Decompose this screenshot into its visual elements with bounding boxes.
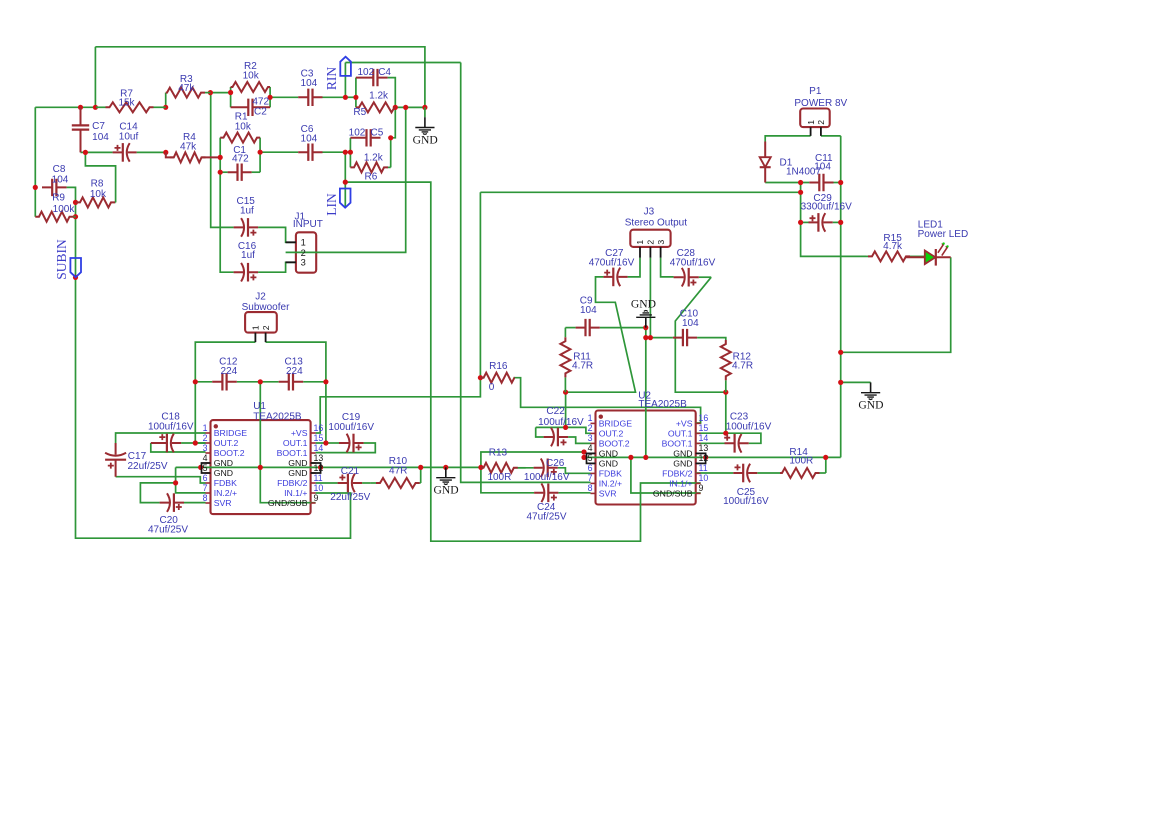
wire C3 to RIN node [323, 96, 346, 98]
svg-text:22uf/25V: 22uf/25V [128, 461, 168, 472]
svg-text:0: 0 [489, 382, 495, 393]
node LED gnd [838, 350, 843, 355]
node U1 pin15 [323, 440, 328, 445]
op-amp U1 pin 6 stub [206, 482, 211, 484]
svg-text:14: 14 [699, 433, 709, 443]
resistor R8 [114, 201, 117, 203]
wire R16 to U2 +VS [515, 378, 701, 423]
capacitor C14 [113, 151, 137, 153]
svg-text:10: 10 [314, 483, 324, 493]
wire C25 left [696, 472, 734, 474]
svg-text:R8: R8 [91, 179, 104, 190]
svg-text:4: 4 [203, 453, 208, 463]
node C10 row [643, 335, 648, 340]
node D1 C11 [798, 180, 803, 185]
svg-text:6: 6 [203, 473, 208, 483]
op-amp U2 pin 13 stub [696, 452, 701, 454]
node R5 right [393, 105, 398, 110]
svg-text:J2: J2 [255, 292, 266, 303]
resistor R1 [220, 133, 260, 143]
wire C5R6 bracket left [349, 138, 351, 168]
capacitor C12 [212, 381, 237, 383]
svg-text:Subwoofer: Subwoofer [242, 302, 290, 313]
wire J2 pin1 down [195, 342, 255, 443]
node C12 C13 mid [258, 379, 263, 384]
wire RIN riser [344, 63, 346, 98]
svg-text:GND: GND [214, 468, 233, 478]
node C1 exit [258, 150, 263, 155]
svg-text:13: 13 [699, 443, 709, 453]
op-amp U2 pin 14 stub [696, 442, 701, 444]
wire power rail [480, 191, 800, 193]
resistor R16 [480, 373, 514, 383]
svg-text:15: 15 [699, 423, 709, 433]
svg-text:Stereo Output: Stereo Output [625, 217, 687, 228]
svg-text:+VS: +VS [291, 428, 308, 438]
op-amp U2 GND bracket left [587, 453, 596, 463]
resistor R3 [205, 92, 210, 94]
svg-text:FDBK/2: FDBK/2 [277, 478, 308, 488]
wire C11 right [834, 182, 841, 184]
op-amp U2 pin 9 stub [696, 492, 701, 494]
svg-text:16: 16 [699, 413, 709, 423]
wire RIN top rail [345, 62, 460, 64]
svg-text:47R: 47R [389, 465, 407, 476]
svg-text:6: 6 [588, 463, 593, 473]
node C1 row left [218, 170, 223, 175]
op-amp U2 TEA2025B body [596, 411, 696, 505]
capacitor C5 [350, 137, 380, 139]
wire C18 right [181, 442, 205, 444]
capacitor C25 [733, 472, 757, 474]
wire SUBIN to U1 input [76, 277, 351, 538]
wire C17 top to pin1 [116, 433, 206, 443]
svg-text:47k: 47k [178, 83, 195, 94]
wire C29 right [833, 221, 841, 223]
resistor R5 [356, 102, 395, 112]
svg-text:SUBIN: SUBIN [54, 239, 69, 280]
capacitor C15 [234, 226, 259, 228]
svg-text:GND: GND [214, 458, 233, 468]
svg-text:100uf/16V: 100uf/16V [726, 421, 772, 432]
ground GND right [870, 382, 872, 392]
op-amp U1 GND bracket left [202, 463, 211, 473]
wire LIN stub [344, 182, 346, 206]
wire GND right rail [840, 136, 842, 458]
wire R1C1 bracket left [220, 138, 233, 273]
connector J3 pins [640, 247, 661, 258]
wire R5 out row GND [395, 106, 425, 108]
wire power tee [800, 183, 802, 223]
op-amp U1 pin 13 stub [311, 462, 316, 464]
svg-text:FDBK/2: FDBK/2 [662, 468, 693, 478]
svg-text:1.2k: 1.2k [369, 91, 389, 102]
svg-text:3: 3 [588, 433, 593, 443]
op-amp U2 pin 6 stub [591, 472, 596, 474]
op-amp U1 pin 1 stub [206, 432, 211, 434]
capacitor C7 [80, 107, 82, 152]
wire GND sym branch [841, 381, 871, 383]
wire C19 loop to pin14 [316, 443, 376, 453]
svg-text:22uf/25V: 22uf/25V [330, 492, 370, 503]
wire R13 to C26 [514, 467, 534, 469]
wire C14 to R3R4 node [137, 151, 166, 153]
svg-text:GND: GND [288, 458, 307, 468]
svg-text:9: 9 [699, 483, 704, 493]
svg-text:SVR: SVR [214, 498, 232, 508]
op-amp U2 pin 5 stub [591, 462, 596, 464]
svg-text:8: 8 [588, 483, 593, 493]
capacitor C3 [298, 96, 322, 98]
op-amp U1 pin 12 stub [311, 472, 316, 474]
op-amp U1 pin1 mark [214, 424, 218, 428]
svg-text:9: 9 [314, 493, 319, 503]
svg-text:2: 2 [261, 325, 271, 330]
svg-text:11: 11 [314, 473, 323, 483]
node R12 bottom [723, 390, 728, 395]
svg-text:7: 7 [588, 473, 593, 483]
op-amp U2 pin 12 stub [696, 462, 701, 464]
wire GND stub near R5 [424, 107, 426, 117]
wire C8 right corner [67, 187, 76, 277]
svg-text:TEA2025B: TEA2025B [638, 399, 687, 410]
wire C4 right drop [388, 78, 396, 138]
wire P1 pin2 [821, 135, 841, 137]
node C14 right [163, 150, 168, 155]
wire R11 top corner [565, 327, 575, 329]
wire C16 to J1 pin3 [258, 262, 296, 272]
node LIN anchor [343, 180, 348, 185]
wire OUT2 column U2 [565, 392, 567, 427]
op-amp U1 pin 5 stub [206, 472, 211, 474]
label SUBIN [70, 258, 81, 277]
svg-text:P1: P1 [809, 86, 822, 97]
wire C26 to FDBK U2 [558, 468, 591, 474]
svg-text:LIN: LIN [324, 193, 339, 216]
svg-text:1.2k: 1.2k [364, 153, 384, 164]
svg-text:IN.1/+: IN.1/+ [284, 488, 307, 498]
capacitor C19 [339, 442, 364, 444]
svg-text:R9: R9 [52, 192, 65, 203]
svg-text:3: 3 [301, 258, 306, 268]
op-amp U1 GND bracket right [311, 463, 321, 473]
op-amp U2 pin 1 stub [591, 422, 596, 424]
svg-text:2: 2 [301, 248, 306, 258]
svg-text:224: 224 [221, 366, 238, 377]
op-amp U1 pin 10 stub [311, 492, 316, 494]
svg-text:10uf: 10uf [119, 131, 139, 142]
wire R13 box [481, 452, 587, 493]
svg-text:R6: R6 [365, 171, 378, 182]
op-amp U2 pin 10 stub [696, 482, 701, 484]
resistor R7 [96, 106, 106, 108]
node SUBIN anchor [73, 275, 78, 280]
capacitor C2 [231, 106, 271, 108]
svg-text:3300uf/16V: 3300uf/16V [801, 201, 852, 212]
svg-text:C8: C8 [53, 164, 66, 175]
svg-text:C4: C4 [378, 67, 391, 78]
svg-text:TEA2025B: TEA2025B [253, 411, 302, 422]
wire C21 to R10 [362, 482, 370, 484]
svg-text:11: 11 [699, 463, 708, 473]
ground GND under U1 row [445, 467, 447, 477]
wire C9 to GND col [600, 327, 646, 329]
svg-text:FDBK: FDBK [214, 478, 237, 488]
wire C1 row leads [220, 171, 227, 173]
capacitor C29 [809, 221, 833, 223]
node R8 left [73, 200, 78, 205]
wire left edge C8 column [34, 107, 36, 216]
connector J1 pins [286, 242, 296, 262]
op-amp U2 pin 7 stub [591, 482, 596, 484]
svg-text:5: 5 [203, 463, 208, 473]
wire C1 row right [252, 171, 261, 173]
resistor R4 leads [166, 153, 218, 158]
wire C28 left [661, 258, 674, 277]
svg-text:GND: GND [599, 448, 618, 458]
capacitor C6 [298, 151, 322, 153]
op-amp U1 pin 2 stub [206, 442, 211, 444]
wire C4R5 bracket left [355, 78, 357, 108]
svg-text:104: 104 [301, 133, 318, 144]
svg-text:1uf: 1uf [241, 250, 255, 261]
node C12 left [193, 379, 198, 384]
svg-text:BOOT.1: BOOT.1 [662, 438, 693, 448]
wire C18 loop to pin3 [151, 443, 206, 452]
svg-text:47uf/25V: 47uf/25V [148, 524, 188, 535]
wire R1C1 bracket right [259, 138, 261, 173]
capacitor C10 [673, 337, 697, 339]
svg-text:16: 16 [314, 423, 324, 433]
op-amp U2 pin 8 stub [591, 492, 596, 494]
wire C7 C14 node [81, 151, 113, 153]
svg-text:GND: GND [673, 458, 692, 468]
wire GND row U1 [176, 466, 481, 468]
resistor R12 [725, 380, 727, 392]
capacitor C20 [160, 502, 184, 504]
wire node row left [35, 106, 96, 108]
wire C27 to J3 pin1 [628, 258, 640, 277]
wire C24 to SVR U2 [558, 492, 590, 494]
node LIN row [343, 150, 348, 155]
wire D1 to C11 [765, 182, 809, 184]
svg-text:4.7R: 4.7R [732, 360, 753, 371]
svg-text:15k: 15k [118, 98, 135, 109]
node R3 right [208, 90, 213, 95]
wire P1 pin1 [765, 136, 810, 142]
node U1 GND row [198, 465, 203, 470]
wire C22 left loop [536, 427, 544, 437]
svg-text:RIN: RIN [324, 67, 339, 91]
node U2 pin15 [723, 431, 728, 436]
svg-text:FDBK: FDBK [599, 468, 622, 478]
node C29 left [798, 220, 803, 225]
connector P1 POWER box [800, 109, 830, 128]
svg-text:13: 13 [314, 453, 324, 463]
svg-text:470uf/16V: 470uf/16V [670, 258, 716, 269]
capacitor C28 [674, 276, 699, 278]
op-amp U1 pin 7 stub [206, 492, 211, 494]
wire R10 riser [420, 467, 422, 483]
svg-text:10: 10 [699, 473, 709, 483]
svg-text:GND: GND [631, 297, 656, 310]
node power rail tee [798, 190, 803, 195]
svg-text:OUT.1: OUT.1 [668, 428, 693, 438]
wire GND row U2 [584, 456, 841, 458]
svg-text:IN.2/+: IN.2/+ [599, 478, 622, 488]
svg-text:1: 1 [635, 240, 645, 245]
connector P1 pins [811, 127, 821, 136]
wire R14 riser [825, 457, 827, 473]
op-amp U1 pin 11 stub [311, 482, 316, 484]
svg-text:C2: C2 [254, 106, 267, 117]
node RIN junctions [343, 95, 348, 100]
op-amp U2 pin 16 stub [696, 422, 701, 424]
svg-text:104: 104 [92, 132, 109, 143]
node C11 right [838, 180, 843, 185]
node R2 bracket in [228, 90, 233, 95]
wire C6 row [260, 151, 298, 153]
svg-text:104: 104 [682, 318, 699, 329]
svg-text:472: 472 [232, 153, 249, 164]
svg-text:INPUT: INPUT [293, 219, 323, 230]
wire R2 out to C3 [270, 96, 298, 98]
op-amp U2 pin 15 stub [696, 432, 701, 434]
wire power +V column [316, 192, 481, 433]
wire R2C2 bracket right [269, 87, 271, 107]
op-amp U2 pin 2 stub [591, 432, 596, 434]
svg-text:C5: C5 [371, 128, 384, 139]
svg-text:2: 2 [203, 433, 208, 443]
svg-text:8: 8 [203, 493, 208, 503]
svg-text:J3: J3 [644, 206, 655, 217]
svg-text:OUT.2: OUT.2 [599, 428, 624, 438]
node C13 right [323, 379, 328, 384]
node U1 FDBK branch [173, 480, 178, 485]
wire C25 to R14 [757, 472, 780, 474]
svg-text:10k: 10k [235, 121, 252, 132]
svg-text:4: 4 [588, 443, 593, 453]
svg-text:1: 1 [251, 325, 261, 330]
wire C10 to R12 [697, 338, 726, 340]
ground GND at J3 [645, 318, 647, 328]
wire GND-SUB column U1 [260, 382, 315, 503]
wire GND col J3 [645, 328, 647, 458]
svg-text:R5: R5 [353, 107, 366, 118]
resistor R10 [370, 482, 376, 484]
connector J3 Stereo Output box [630, 230, 670, 247]
svg-text:5: 5 [588, 453, 593, 463]
svg-text:100k: 100k [53, 204, 76, 215]
node U1 pin2 [193, 440, 198, 445]
capacitor C24 [534, 492, 558, 494]
svg-text:IN.2/+: IN.2/+ [214, 488, 237, 498]
svg-text:BRIDGE: BRIDGE [599, 418, 633, 428]
svg-text:2: 2 [646, 240, 656, 245]
svg-text:GND: GND [858, 399, 883, 412]
node C5 exit [388, 135, 393, 140]
wire C12 row left [195, 381, 212, 383]
capacitor C4 [356, 77, 388, 79]
svg-text:OUT.2: OUT.2 [214, 438, 239, 448]
ground GND near R5 [424, 117, 426, 127]
wire R12 to pin15 [696, 392, 726, 433]
capacitor C21 [338, 482, 363, 484]
capacitor C13 [279, 381, 304, 383]
svg-text:104: 104 [580, 305, 597, 316]
svg-text:15: 15 [314, 433, 324, 443]
LED LED1 Power LED [906, 256, 951, 258]
node C7 bottom [83, 150, 88, 155]
svg-text:R13: R13 [489, 447, 508, 458]
node R11 bottom [563, 390, 568, 395]
svg-text:104: 104 [52, 174, 69, 185]
svg-text:OUT.1: OUT.1 [283, 438, 308, 448]
svg-text:47k: 47k [180, 141, 197, 152]
wire GND branch to pin7 [176, 467, 206, 493]
svg-text:1: 1 [301, 238, 306, 248]
svg-text:10k: 10k [243, 71, 260, 82]
wire LED cathode down [841, 257, 951, 352]
svg-text:100uf/16V: 100uf/16V [524, 472, 570, 483]
op-amp U1 pin 9 stub [311, 502, 316, 504]
svg-text:12: 12 [314, 463, 324, 473]
wire C20 loop [140, 483, 175, 503]
resistor R14 [820, 472, 826, 474]
svg-text:BOOT.2: BOOT.2 [599, 438, 630, 448]
wire C20 to SVR [184, 502, 206, 504]
capacitor C22 [544, 436, 569, 438]
svg-text:GND: GND [288, 468, 307, 478]
resistor R2 [231, 82, 271, 92]
wire top rail [95, 47, 425, 108]
node R9 right [73, 214, 78, 219]
svg-text:104: 104 [301, 78, 318, 89]
node C22 top [563, 425, 568, 430]
wire C12 C13 mid [237, 381, 279, 383]
wire LIN column [344, 152, 346, 182]
wire C28 right [699, 276, 711, 278]
svg-text:4.7k: 4.7k [883, 241, 903, 252]
svg-text:2: 2 [588, 423, 593, 433]
svg-text:100uf/16V: 100uf/16V [723, 496, 769, 507]
op-amp U2 pin 11 stub [696, 472, 701, 474]
wire C23 left [696, 442, 725, 444]
node R7 right [163, 105, 168, 110]
svg-text:4.7R: 4.7R [572, 360, 593, 371]
resistor R6 [388, 166, 391, 168]
node power R16 tap [478, 375, 483, 380]
capacitor C17 [115, 443, 117, 477]
label RIN [340, 57, 351, 76]
svg-text:100R: 100R [487, 472, 511, 483]
svg-text:BRIDGE: BRIDGE [214, 428, 248, 438]
svg-text:100uf/16V: 100uf/16V [328, 422, 374, 433]
wire C22 top rail [536, 427, 591, 433]
resistor R4 [170, 152, 206, 162]
node C8 left [33, 185, 38, 190]
wire C19 bridge [326, 442, 339, 444]
svg-text:1: 1 [806, 120, 816, 125]
svg-text:GND: GND [599, 458, 618, 468]
op-amp U1 pin 8 stub [206, 502, 211, 504]
node GND sym right [838, 380, 843, 385]
wire C13 row right [303, 381, 326, 383]
wire U2 GND-SUB [631, 457, 701, 493]
svg-text:C22: C22 [546, 406, 565, 417]
svg-text:SVR: SVR [599, 488, 617, 498]
wire C22 to pin3 [568, 437, 590, 443]
